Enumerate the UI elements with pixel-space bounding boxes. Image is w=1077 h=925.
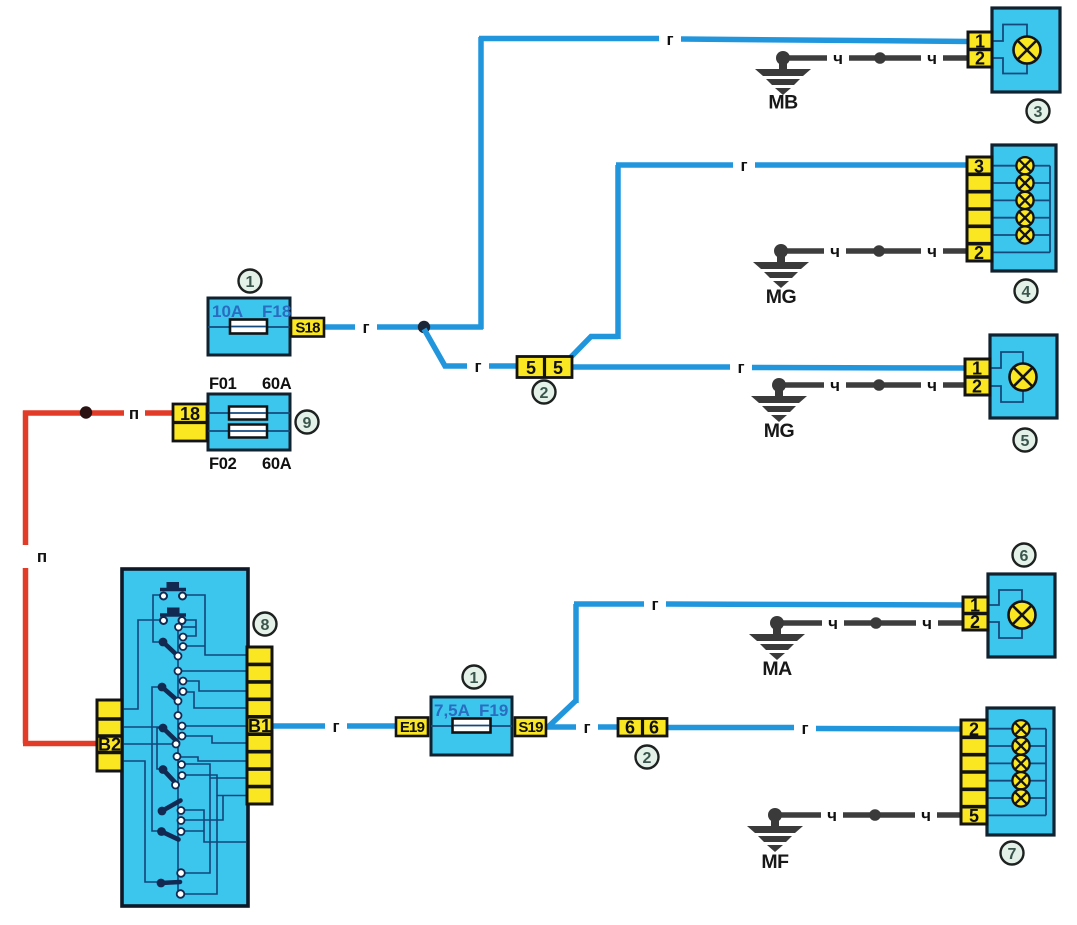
- connector pins 1 2 of lamp 3: [968, 32, 992, 69]
- fuse symbol F02: [229, 425, 267, 438]
- wire blue branch junction to connector 5|5: [424, 329, 517, 366]
- svg-text:ч: ч: [830, 242, 840, 261]
- wire colour labels п: [37, 404, 139, 566]
- pin S18: [291, 318, 324, 337]
- svg-text:г: г: [474, 357, 481, 376]
- svg-text:п: п: [37, 547, 47, 566]
- svg-text:ч: ч: [921, 806, 931, 825]
- switch lever SW5: [158, 801, 181, 816]
- switch lever SW2: [158, 683, 178, 701]
- wire red battery feed to fuse 18: [23, 410, 173, 416]
- junction on MA wire: [870, 617, 882, 629]
- svg-text:г: г: [666, 30, 673, 49]
- svg-text:1: 1: [470, 670, 479, 687]
- wire colour labels ч: [827, 49, 937, 825]
- svg-text:S19: S19: [518, 719, 543, 736]
- fuse unit U1 (mounting block, fuse F18): [208, 298, 291, 355]
- lamp symbol L5: [1010, 364, 1037, 391]
- connector X2 (5|5): [517, 357, 572, 379]
- svg-text:B1: B1: [248, 716, 271, 736]
- switch lever SW4: [159, 765, 178, 785]
- svg-text:г: г: [362, 318, 369, 337]
- svg-text:5: 5: [526, 358, 536, 378]
- fuse unit U1b (fuse F19): [431, 697, 512, 755]
- svg-text:7: 7: [1008, 846, 1017, 863]
- svg-text:5: 5: [969, 806, 979, 826]
- connector pins 1 2 of lamp 6: [963, 596, 988, 633]
- junction on MG upper wire: [873, 245, 885, 257]
- fuse symbol F01: [229, 407, 267, 420]
- connector pins 2..5 of cluster 7: [961, 720, 987, 827]
- switch lever SW3: [159, 724, 178, 743]
- callout 5: [1014, 429, 1037, 452]
- svg-text:ч: ч: [927, 376, 937, 395]
- wire blue vertical riser to lamp 3: [479, 37, 970, 329]
- wire black ground MG lower: [779, 382, 968, 388]
- wire colour labels г: [332, 30, 808, 738]
- fusible link unit (9) F01 F02: [208, 375, 292, 473]
- lamp cluster unit 4 (instrument lamps): [992, 145, 1056, 271]
- svg-text:60A: 60A: [262, 455, 292, 473]
- lamp symbols in cluster 7: [1012, 720, 1029, 807]
- node junction on S18 wire: [418, 321, 430, 333]
- callout 3: [1027, 100, 1050, 123]
- junction on MF wire: [869, 809, 881, 821]
- svg-text:г: г: [737, 358, 744, 377]
- svg-text:г: г: [801, 719, 808, 738]
- svg-text:6: 6: [1020, 548, 1029, 565]
- svg-text:MG: MG: [766, 286, 796, 308]
- ground MG upper: [753, 244, 809, 308]
- svg-text:2: 2: [540, 385, 549, 402]
- switch unit 8 body: [122, 569, 248, 906]
- callout 1 (fuse box): [239, 270, 262, 293]
- fuse symbol F18: [230, 320, 267, 334]
- switch lever SW7: [157, 879, 180, 888]
- svg-text:ч: ч: [927, 49, 937, 68]
- svg-text:60A: 60A: [262, 375, 292, 393]
- svg-text:2: 2: [969, 720, 979, 740]
- callout 2 (connector 5|5): [533, 381, 556, 404]
- svg-text:MG: MG: [764, 420, 794, 442]
- svg-text:3: 3: [1034, 104, 1043, 121]
- callout 8 (switch unit): [254, 613, 277, 636]
- lamp symbols in cluster 4: [1016, 157, 1033, 244]
- svg-text:ч: ч: [922, 614, 932, 633]
- svg-text:1: 1: [246, 274, 255, 291]
- svg-text:9: 9: [303, 415, 312, 432]
- lamp unit 5 (side light): [990, 335, 1057, 418]
- wire red vertical drop: [23, 411, 29, 744]
- svg-text:2: 2: [975, 49, 985, 69]
- junction on MG lower wire: [873, 379, 885, 391]
- ground MG lower: [751, 378, 807, 442]
- svg-text:F01: F01: [209, 375, 237, 393]
- svg-text:S18: S18: [295, 320, 320, 337]
- callout 7: [1001, 842, 1024, 865]
- connector pins 1 2 of lamp 5: [965, 359, 990, 397]
- fuse symbol F19: [453, 719, 491, 733]
- pin S19: [515, 718, 546, 737]
- wire black ground MA: [777, 620, 966, 626]
- lamp unit 3 (side light): [992, 8, 1060, 92]
- svg-text:6: 6: [649, 718, 659, 738]
- svg-text:E19: E19: [400, 719, 425, 736]
- svg-text:ч: ч: [830, 376, 840, 395]
- svg-text:6: 6: [625, 718, 635, 738]
- svg-text:ч: ч: [828, 614, 838, 633]
- connector X2b (6|6): [618, 718, 667, 738]
- svg-text:г: г: [332, 717, 339, 736]
- contact points column: [172, 624, 187, 898]
- wire blue connector 6|6 to lamp cluster 7: [667, 728, 964, 730]
- svg-text:г: г: [740, 156, 747, 175]
- callout 1 (fuse F19): [463, 666, 486, 689]
- svg-text:ч: ч: [827, 806, 837, 825]
- callout 9 (fusible link box): [296, 411, 319, 434]
- svg-text:ч: ч: [833, 49, 843, 68]
- pin E19: [396, 718, 428, 737]
- lamp symbol L3: [1014, 37, 1041, 64]
- pin 18 connector: [173, 404, 207, 441]
- ground MB: [755, 51, 811, 114]
- svg-text:2: 2: [643, 750, 652, 767]
- node junction on red wire: [80, 406, 92, 418]
- wire red to B2: [23, 741, 97, 747]
- switch lever SW6: [157, 827, 178, 839]
- svg-text:3: 3: [974, 157, 984, 177]
- connector B1: [247, 647, 272, 804]
- svg-text:8: 8: [261, 617, 270, 634]
- connector pins 3..2 of cluster 4: [967, 157, 992, 264]
- wire black ground MF: [775, 812, 964, 818]
- svg-text:г: г: [651, 595, 658, 614]
- wire blue riser S19 to lamp 6: [548, 604, 966, 727]
- svg-text:г: г: [583, 718, 590, 737]
- svg-text:MF: MF: [761, 851, 789, 873]
- ground MA: [749, 616, 805, 680]
- junction on MB wire: [874, 52, 886, 64]
- wire blue S19 to connector 6|6: [545, 724, 618, 730]
- wire blue branch to lamp cluster 4: [570, 165, 970, 358]
- svg-text:2: 2: [974, 243, 984, 263]
- svg-text:10A: 10A: [212, 302, 243, 321]
- svg-text:18: 18: [180, 404, 200, 424]
- svg-text:ч: ч: [927, 242, 937, 261]
- svg-text:5: 5: [1021, 433, 1030, 450]
- wire blue connector 5|5 to lamp 5 pin 1: [572, 367, 968, 368]
- wire blue S18 to corner (net upper feed): [323, 324, 483, 330]
- wire black ground MG upper: [781, 248, 970, 254]
- svg-text:2: 2: [970, 612, 980, 632]
- svg-text:MB: MB: [768, 92, 798, 114]
- switch unit 8 internal wiring: [122, 595, 248, 894]
- callout 6: [1013, 544, 1036, 567]
- svg-text:4: 4: [1022, 284, 1031, 301]
- svg-text:MA: MA: [762, 658, 792, 680]
- ground MF: [747, 808, 803, 873]
- lamp cluster unit 7 (instrument lamps): [987, 708, 1054, 835]
- push-button contact S8a: [160, 582, 186, 600]
- svg-text:5: 5: [553, 358, 563, 378]
- lamp symbol L6: [1009, 602, 1036, 629]
- svg-text:B2: B2: [98, 735, 121, 755]
- connector B2: [97, 700, 122, 771]
- svg-text:1: 1: [972, 359, 982, 379]
- svg-text:2: 2: [972, 377, 982, 397]
- svg-text:F02: F02: [209, 455, 237, 473]
- switch lever SW1: [159, 638, 179, 657]
- lamp unit 6 (side light): [988, 574, 1055, 657]
- wire blue B1 to fuse E19: [272, 723, 396, 729]
- callout 4: [1015, 280, 1038, 303]
- wire black ground MB: [783, 55, 971, 61]
- svg-text:F19: F19: [479, 701, 508, 720]
- svg-text:F18: F18: [262, 302, 291, 321]
- svg-text:п: п: [129, 404, 139, 423]
- push-button contact S8b: [160, 608, 186, 625]
- callout 2 (connector 6|6): [636, 746, 659, 769]
- svg-text:7,5A: 7,5A: [434, 701, 470, 720]
